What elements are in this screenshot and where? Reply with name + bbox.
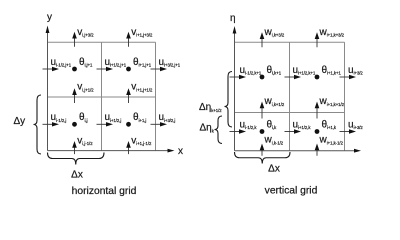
left grid top border j+3/2: [48, 41, 156, 43]
arrow u_i-1/2,k+1: [230, 75, 247, 79]
arrow w_i+1,k+1/2: [315, 102, 320, 119]
arrow v_i+1,j-1/2: [126, 141, 131, 154]
eta-axis: [233, 26, 237, 151]
arrow v_i,j+1/2: [72, 88, 77, 103]
arrow w_i,k-1/2: [260, 144, 265, 156]
arrow w_i+1,k-1/2: [315, 144, 320, 156]
arrow u_i+1/2,k+1: [285, 75, 302, 79]
theta dot i+1,k+1: [315, 75, 320, 80]
arrow u_i-1/2,k: [230, 129, 247, 133]
arrow v_i,j-1/2: [72, 141, 77, 154]
y-axis: [46, 26, 50, 151]
arrow v_i+1,j+3/2: [126, 32, 131, 47]
brace dx left: [48, 153, 105, 165]
svg-text:Δx: Δx: [268, 164, 280, 175]
left grid middle line j+1/2: [48, 96, 156, 98]
arrow u_i+3/2 (row k): [340, 129, 357, 133]
arrow w_i,k+1/2: [260, 102, 265, 119]
svg-text:y: y: [47, 12, 52, 23]
brace d-eta k+1/2: [225, 72, 233, 128]
svg-text:η: η: [230, 13, 236, 24]
arrow v_i,j+3/2: [72, 32, 77, 47]
theta dot i+1,k: [315, 129, 320, 134]
arrow u_i+3/2 (row k+1): [340, 75, 357, 79]
svg-text:horizontal grid: horizontal grid: [72, 186, 137, 197]
arrow w_i,k+3/2: [260, 32, 265, 47]
arrow u_i-1/2,j: [43, 122, 60, 126]
svg-text:x: x: [178, 146, 183, 157]
x-axis: [48, 149, 175, 153]
brace dy: [34, 95, 42, 154]
right grid vertical line i+3/2 (right border): [344, 42, 346, 151]
arrow v_i+1,j+1/2: [126, 88, 131, 103]
right grid top border k+3/2: [235, 41, 345, 43]
theta dot i,k: [260, 129, 265, 134]
arrow u_i+3/2,j: [151, 122, 168, 126]
left grid vertical line i+3/2 (right border): [155, 42, 157, 150]
right grid vertical line i+1/2: [289, 42, 291, 151]
arrow u_i+1/2,j: [97, 122, 114, 126]
svg-text:Δy: Δy: [14, 116, 26, 127]
svg-text:Δx: Δx: [71, 170, 83, 181]
brace dx right: [235, 152, 291, 164]
theta dot i,j: [72, 122, 77, 127]
svg-text:vertical grid: vertical grid: [265, 186, 318, 197]
theta dot i,j+1: [72, 67, 77, 72]
right grid middle line k+1/2: [235, 112, 345, 114]
left grid vertical line i+1/2: [101, 42, 103, 150]
arrow u_i+3/2,j+1: [151, 67, 168, 71]
right bottom axis: [235, 149, 362, 153]
theta dot i+1,j: [126, 122, 131, 127]
arrow u_i+1/2,k: [285, 129, 302, 133]
theta dot i,k+1: [260, 75, 265, 80]
arrow u_i+1/2,j+1: [97, 67, 114, 71]
arrow w_i+1,k+3/2: [315, 32, 320, 47]
theta dot i+1,j+1: [126, 67, 131, 72]
arrow u_i-1/2,j+1: [43, 67, 60, 71]
brace d-eta k: [215, 116, 223, 144]
